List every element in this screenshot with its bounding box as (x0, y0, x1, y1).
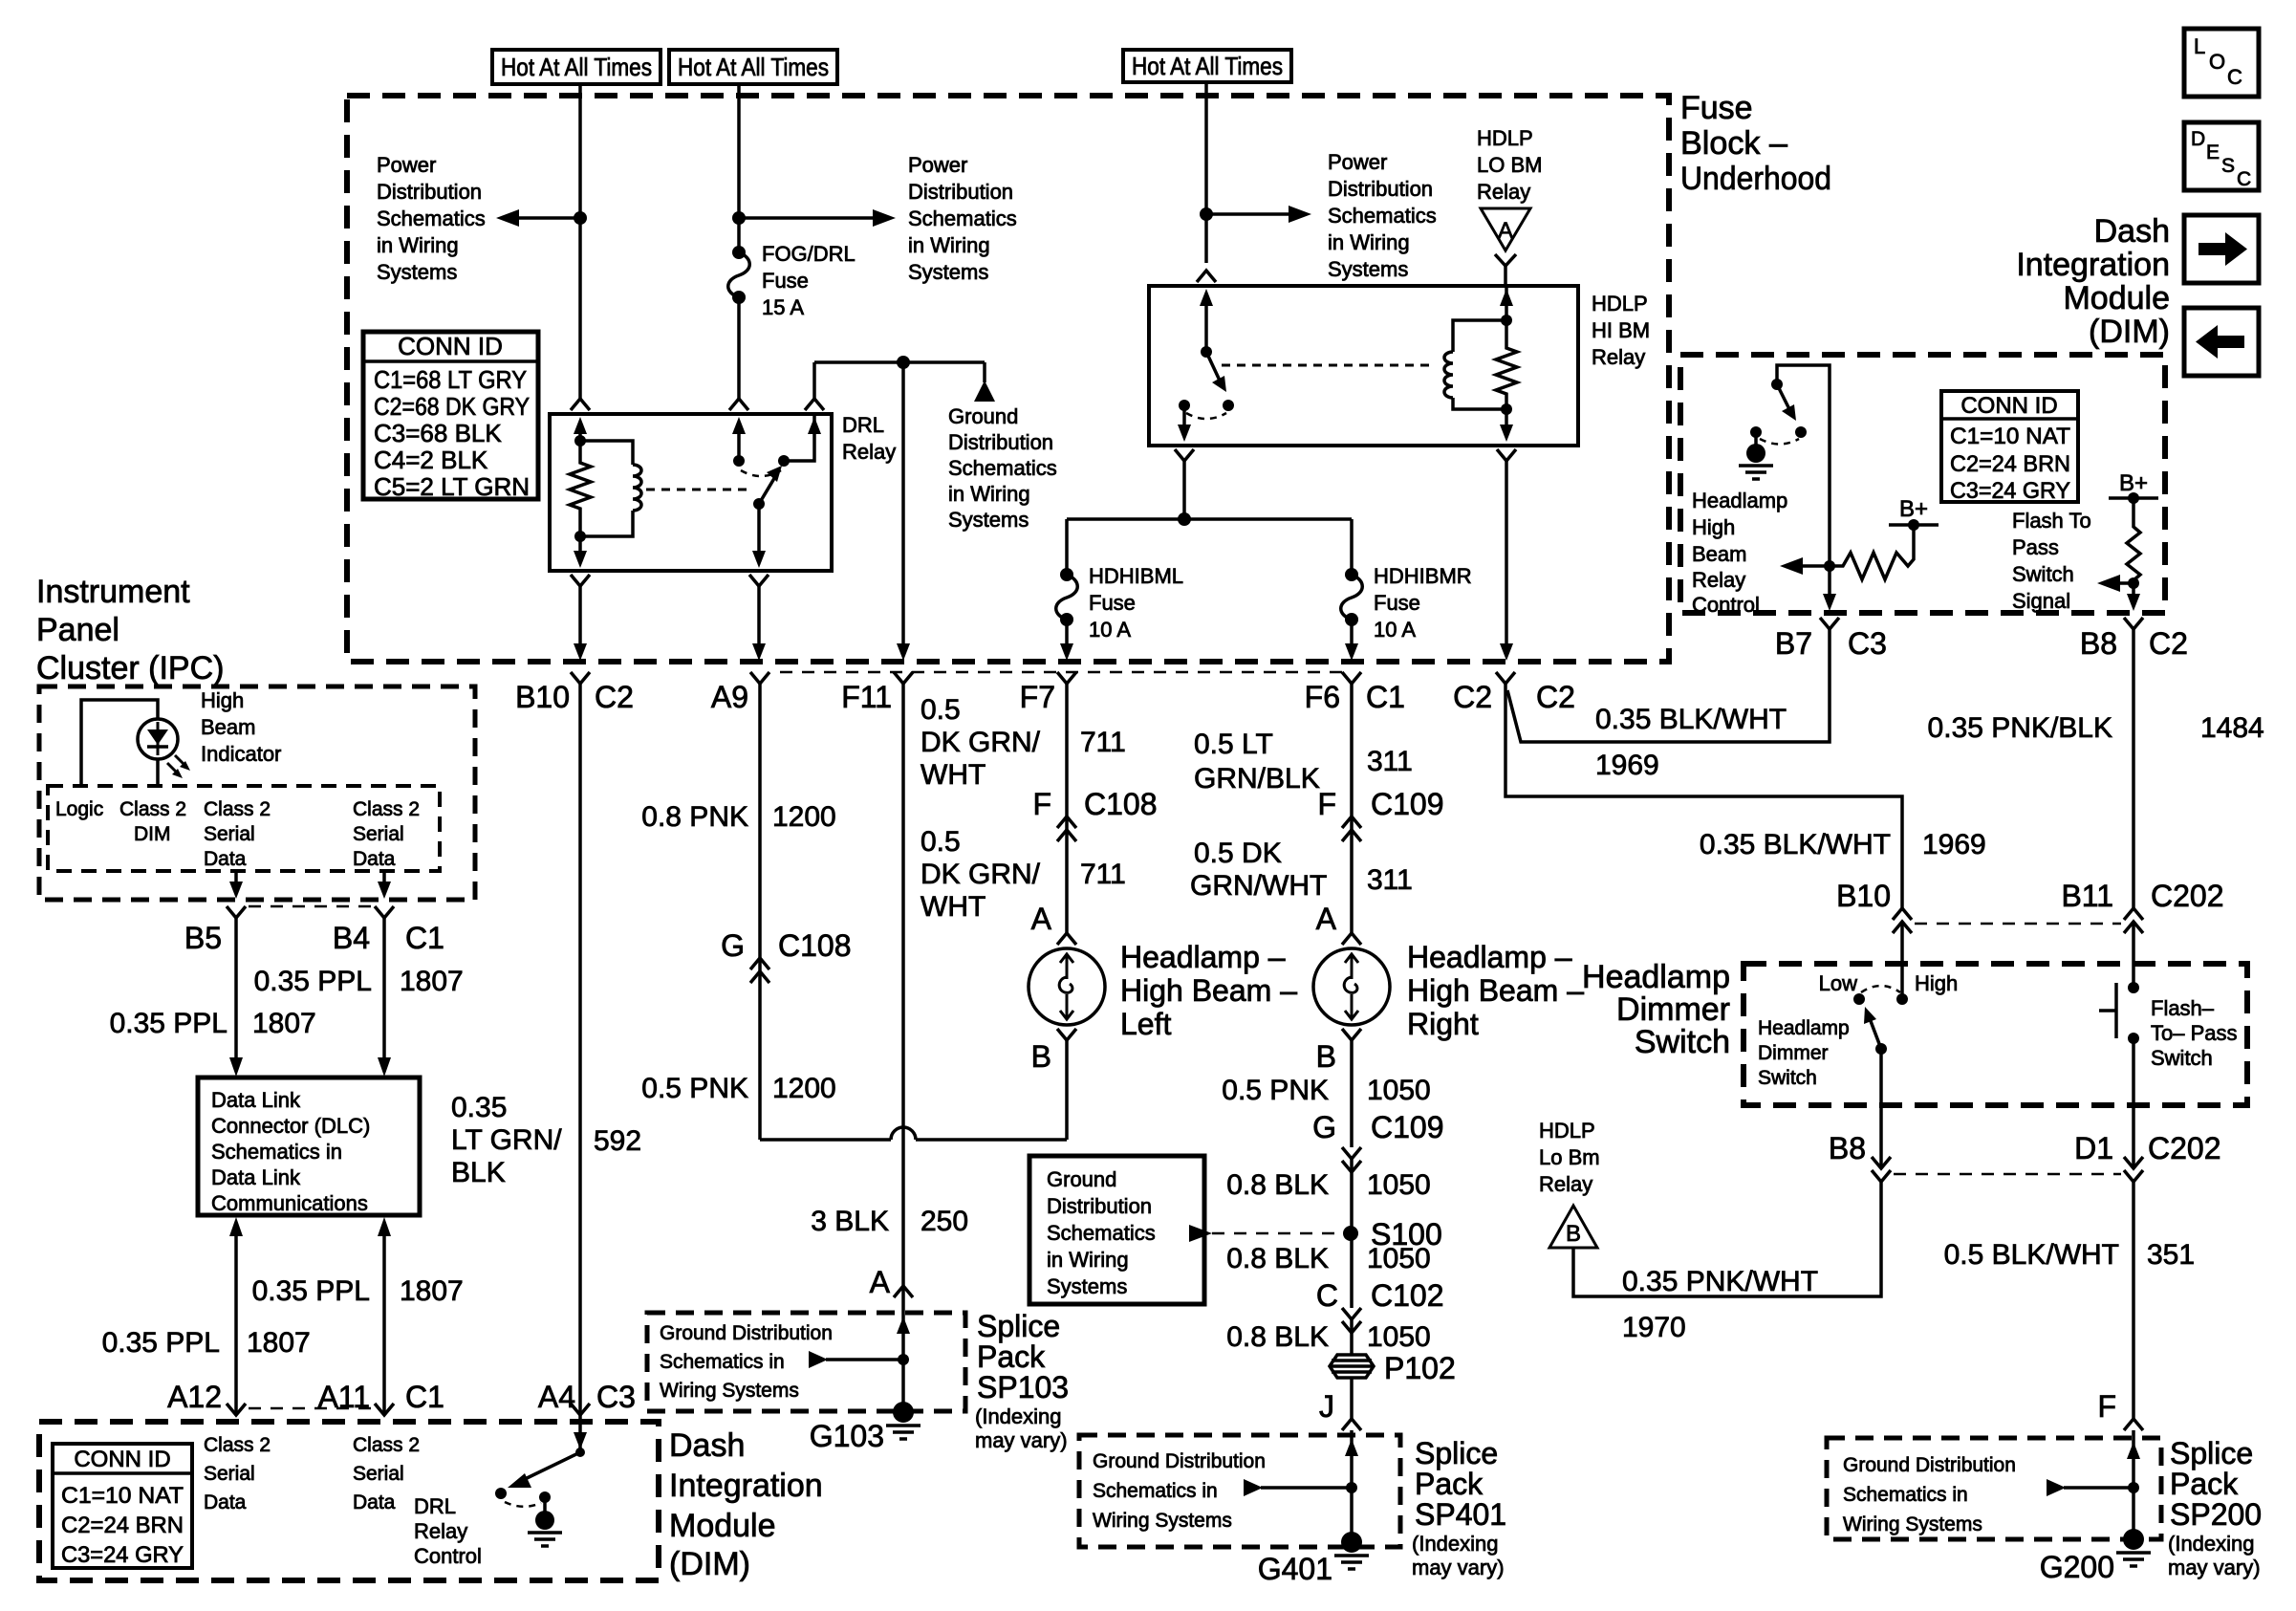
svg-text:C: C (2227, 65, 2242, 89)
svg-text:in Wiring: in Wiring (1047, 1248, 1129, 1272)
pin B chevron left headlamp (1057, 1029, 1076, 1040)
svg-text:C3: C3 (1848, 626, 1887, 661)
svg-text:in Wiring: in Wiring (948, 482, 1030, 506)
label Splice Pack SP200 (2168, 1436, 2262, 1579)
IPC dashed box (39, 686, 475, 900)
svg-text:C4=2 BLK: C4=2 BLK (374, 446, 488, 474)
svg-text:High: High (1692, 515, 1735, 539)
label 0.8 BLK 1050 (below S100) (1226, 1243, 1431, 1274)
exit arrow wire2 bottom of DRL relay (752, 551, 766, 568)
svg-text:D: D (2191, 128, 2205, 150)
connector C108 F-side chevrons (1057, 816, 1076, 841)
svg-text:Ground Distribution: Ground Distribution (1843, 1454, 2016, 1476)
svg-text:Underhood: Underhood (1680, 161, 1831, 197)
label HDHIBML Fuse 10 A (1089, 564, 1183, 642)
right arrow box (2184, 215, 2259, 283)
svg-text:C1: C1 (1366, 680, 1405, 714)
svg-text:311: 311 (1367, 746, 1413, 777)
label Headlamp Dimmer Switch (1582, 959, 1730, 1060)
left arrow box (2184, 308, 2259, 376)
svg-text:0.35 PPL: 0.35 PPL (110, 1008, 227, 1039)
svg-text:3 BLK: 3 BLK (811, 1206, 889, 1237)
Data Link Connector box (198, 1078, 420, 1215)
ground G401 symbol (1334, 1556, 1369, 1569)
label 0.5 DK GRN/WHT (lower F6) (1190, 838, 1327, 902)
label 0.8 PNK 1200 (641, 801, 835, 833)
LOC box (2184, 29, 2259, 97)
svg-text:Class 2: Class 2 (353, 1434, 420, 1456)
svg-text:Signal: Signal (2012, 589, 2070, 613)
SP401 reference arrow (1244, 1479, 1352, 1496)
pin J chevron (1342, 1419, 1361, 1430)
switch output inside HI BM relay (1178, 405, 1191, 442)
svg-text:Relay: Relay (1539, 1172, 1592, 1196)
svg-text:G401: G401 (1258, 1552, 1332, 1586)
svg-text:0.8 PNK: 0.8 PNK (641, 801, 748, 833)
junction node to F11 wire (897, 356, 910, 369)
svg-text:HI BM: HI BM (1592, 318, 1650, 342)
svg-text:G: G (1312, 1110, 1336, 1144)
connector C202 B8 chevrons (1872, 1157, 1891, 1182)
wire2 exit segment inside DRL relay (757, 504, 761, 556)
svg-text:C1: C1 (405, 921, 444, 955)
svg-text:HDLP: HDLP (1592, 292, 1648, 316)
svg-text:Switch: Switch (2012, 562, 2074, 586)
flash-to-pass contact top (2128, 982, 2139, 993)
text Flash To Pass Switch Signal (2012, 509, 2091, 613)
label Fuse Block - Underhood (1680, 90, 1831, 197)
arrow to Power Distribution left (496, 209, 580, 227)
ground G401 ball (1341, 1532, 1362, 1553)
pin chevron wire2 top of DRL relay (729, 399, 748, 410)
HDHIBML fuse (1056, 568, 1078, 661)
switch pivot (HI BM relay) (1201, 346, 1212, 358)
svg-text:Dimmer: Dimmer (1616, 991, 1730, 1028)
DIM bottom dashed box (39, 1422, 659, 1580)
svg-text:0.5 LT: 0.5 LT (1194, 729, 1273, 760)
pin chevron switch feed top of HI BM relay (1197, 271, 1216, 282)
arrow left (relay control) (1780, 557, 1830, 575)
arrow to Power Distribution right (739, 209, 896, 227)
svg-text:Control: Control (1692, 593, 1760, 617)
text Class 2 Serial Data (IPC right) (353, 798, 420, 870)
exit arrow wire1 bottom of DRL relay (574, 551, 587, 568)
svg-text:C1=68 LT GRY: C1=68 LT GRY (374, 365, 527, 394)
entry arrow into SP200 (2127, 1442, 2140, 1459)
svg-text:F: F (2097, 1389, 2116, 1424)
wire B11 into flash-to-pass switch (2132, 922, 2135, 988)
svg-text:S: S (2221, 155, 2235, 177)
switch travel arc (DRL relay) (741, 470, 781, 476)
svg-text:LT GRN/: LT GRN/ (451, 1124, 562, 1156)
label 0.35 PPL 1807 (A11 wire) (252, 1275, 464, 1307)
text Power Distribution right (908, 153, 1017, 284)
svg-text:Low: Low (1819, 971, 1857, 995)
svg-text:0.35 PNK/BLK: 0.35 PNK/BLK (1928, 712, 2112, 744)
ground distribution reference arrow (974, 362, 995, 402)
svg-text:in Wiring: in Wiring (377, 233, 459, 257)
svg-text:B8: B8 (1829, 1131, 1866, 1165)
wire B8/C2 to flash-to-pass switch (2132, 629, 2135, 908)
svg-text:Data: Data (204, 1491, 247, 1513)
svg-text:Serial: Serial (204, 1463, 255, 1485)
junction node B7 wire (1824, 560, 1835, 572)
svg-text:CONN ID: CONN ID (1960, 393, 2057, 419)
pin C2/C2 chevron (1496, 672, 1515, 684)
svg-text:DIM: DIM (134, 823, 171, 845)
svg-text:311: 311 (1367, 864, 1413, 896)
svg-text:Flash To: Flash To (2012, 509, 2091, 533)
text Ground Distribution SP200 (1843, 1454, 2016, 1535)
svg-text:A4: A4 (538, 1380, 575, 1414)
wire1 below DRL relay (571, 575, 590, 661)
svg-text:Systems: Systems (948, 508, 1029, 532)
connector dashed line B8-D1 (1894, 1173, 2121, 1176)
resistor (relay control pull-up) (1830, 553, 1914, 579)
svg-text:Left: Left (1120, 1007, 1171, 1041)
resistor (flash to pass pull-up) (2127, 523, 2140, 583)
entry arrow wire1 into DRL relay (574, 417, 587, 441)
svg-text:1970: 1970 (1622, 1312, 1686, 1343)
svg-text:C3: C3 (596, 1380, 636, 1414)
svg-text:Integration: Integration (669, 1468, 823, 1504)
wire B7 to C2 splice path (1507, 629, 1830, 742)
DRL relay control ground stem (543, 1497, 547, 1513)
SP200 junction node (2128, 1482, 2139, 1493)
svg-text:B5: B5 (184, 921, 222, 955)
pin A4 chevron (571, 1404, 590, 1415)
right headlamp ground wire (1350, 1040, 1354, 1147)
wire 592 full drop (B10/C2 to A4/C3) (578, 684, 582, 1415)
connector C202 B10 chevrons (1893, 908, 1912, 933)
svg-text:G200: G200 (2040, 1550, 2114, 1584)
svg-text:C3=24 GRY: C3=24 GRY (1950, 478, 2070, 504)
pin F11 chevron (894, 672, 913, 684)
svg-text:BLK: BLK (451, 1157, 506, 1188)
relay coil node bottom (574, 531, 586, 542)
svg-text:O: O (2209, 50, 2225, 74)
entry arrow coil feed into HI BM relay (1500, 286, 1513, 320)
text HDLP LO BM Relay (1477, 126, 1542, 204)
text Class 2 Serial Data (DIM left) (204, 1434, 271, 1513)
svg-text:Distribution: Distribution (948, 430, 1053, 454)
wire B4 to DLC (378, 918, 391, 1077)
svg-text:1484: 1484 (2200, 712, 2264, 744)
svg-text:C1=10 NAT: C1=10 NAT (1950, 424, 2070, 449)
svg-text:Distribution: Distribution (1047, 1194, 1152, 1218)
svg-text:Relay: Relay (1477, 180, 1530, 204)
switch arm (HI BM relay) (1206, 352, 1226, 392)
svg-text:Lo Bm: Lo Bm (1539, 1145, 1600, 1169)
connector dashed line under fuse block (780, 671, 1343, 674)
svg-text:C2=24 BRN: C2=24 BRN (61, 1513, 184, 1538)
label Instrument Panel Cluster (IPC) (36, 574, 224, 686)
svg-text:Splice: Splice (1415, 1436, 1498, 1470)
relay control travel arc (1760, 439, 1799, 445)
dimmer contact low (1853, 993, 1865, 1005)
svg-text:High Beam –: High Beam – (1407, 973, 1584, 1008)
svg-text:0.8 BLK: 0.8 BLK (1226, 1243, 1329, 1274)
relay control contact right (1795, 426, 1807, 438)
relay control contact left (1750, 426, 1762, 438)
svg-text:Schematics in: Schematics in (1093, 1480, 1218, 1502)
label FOG/DRL Fuse 15 A (762, 242, 856, 319)
svg-text:High: High (201, 688, 244, 712)
svg-text:1807: 1807 (400, 966, 464, 997)
svg-text:C102: C102 (1371, 1278, 1444, 1313)
dashed actuation link (HI BM relay) (1222, 364, 1436, 367)
svg-text:C2: C2 (1453, 680, 1492, 714)
svg-text:C2: C2 (1536, 680, 1575, 714)
CONN ID table (DIM) (53, 1444, 192, 1568)
svg-text:F: F (1032, 787, 1051, 821)
svg-text:Relay: Relay (842, 440, 896, 464)
svg-text:WHT: WHT (921, 891, 986, 923)
label 0.5 DK GRN/ WHT (lower F7) (921, 826, 1041, 923)
Splice Pack SP200 dashed box (1827, 1438, 2161, 1539)
svg-text:A12: A12 (167, 1380, 222, 1414)
svg-text:Distribution: Distribution (1328, 177, 1433, 201)
svg-text:Headlamp –: Headlamp – (1407, 940, 1572, 974)
dashed actuation link (DRL relay) (646, 489, 751, 491)
DRL relay control ground ball (535, 1511, 554, 1530)
svg-text:Flash–: Flash– (2151, 996, 2215, 1020)
text Ground Distribution (top) (948, 404, 1057, 532)
svg-text:Serial: Serial (353, 823, 404, 845)
svg-text:Systems: Systems (377, 260, 457, 284)
connector C108 G-side chevrons (750, 958, 769, 983)
svg-text:in Wiring: in Wiring (908, 233, 990, 257)
svg-text:C108: C108 (778, 928, 852, 963)
svg-text:in Wiring: in Wiring (1328, 230, 1410, 254)
Hot At All Times box 2 (669, 50, 837, 84)
svg-text:250: 250 (921, 1206, 968, 1237)
svg-text:(Indexing: (Indexing (975, 1404, 1062, 1428)
svg-text:0.8 BLK: 0.8 BLK (1226, 1321, 1329, 1353)
DRL relay control travel arc (505, 1502, 541, 1507)
label 0.5 PNK 1050 (1222, 1075, 1430, 1106)
exit arrow B8 wire in DIM (2127, 583, 2140, 611)
connector C109 F-side chevrons (1342, 816, 1361, 841)
relay control ground stem (1754, 432, 1758, 446)
SP200 reference arrow (2047, 1479, 2134, 1496)
svg-text:(Indexing: (Indexing (2168, 1532, 2255, 1556)
svg-text:0.5: 0.5 (921, 694, 961, 726)
dimmer switch pivot (1875, 1043, 1887, 1055)
svg-text:may vary): may vary) (1412, 1556, 1505, 1579)
label 0.35 PPL 1807 (B5 wire) (110, 1008, 316, 1039)
svg-text:L: L (2194, 34, 2205, 58)
junction node fuse feed (1178, 512, 1191, 526)
Ground Distribution solid box (middle) (1029, 1156, 1204, 1304)
switch fixed contact right (HI BM relay) (1223, 400, 1234, 411)
wire from Hot box 2 (FOG/DRL feed) (737, 84, 741, 252)
coil stubs (580, 441, 633, 465)
svg-text:Power: Power (377, 153, 436, 177)
svg-text:0.35: 0.35 (451, 1092, 507, 1123)
LED light emission arrows (167, 755, 190, 778)
exit arrow B7 wire in DIM (1823, 594, 1836, 611)
entry arrow wire2 into DRL relay (732, 417, 746, 461)
entry arrow switch feed into HI BM relay (1200, 289, 1213, 352)
high beam indicator LED circle (138, 719, 178, 759)
svg-text:WHT: WHT (921, 759, 986, 791)
svg-text:1200: 1200 (772, 1073, 836, 1104)
svg-text:Splice: Splice (977, 1309, 1060, 1343)
coil (HI BM relay) (1444, 352, 1453, 398)
svg-text:592: 592 (594, 1125, 641, 1157)
svg-text:B: B (1316, 1039, 1336, 1074)
svg-text:FOG/DRL: FOG/DRL (762, 242, 856, 266)
svg-text:Data: Data (353, 848, 396, 870)
svg-text:C202: C202 (2148, 1131, 2221, 1165)
wire2 below DRL relay (749, 575, 769, 661)
triangle connector A (HDLP LO BM relay) (1481, 208, 1530, 286)
svg-text:B+: B+ (1899, 496, 1928, 522)
svg-text:Logic: Logic (55, 798, 103, 820)
switch travel arc (HI BM relay) (1186, 413, 1226, 419)
CONN ID table (fuse block) (363, 332, 538, 501)
svg-text:A11: A11 (317, 1380, 370, 1414)
svg-text:F7: F7 (1020, 680, 1055, 714)
junction node on wire 2 (732, 211, 746, 225)
svg-text:10 A: 10 A (1374, 618, 1416, 642)
svg-text:Switch: Switch (1758, 1067, 1817, 1089)
svg-text:Dash: Dash (669, 1427, 745, 1464)
svg-text:1807: 1807 (252, 1008, 316, 1039)
wire jog to left headlamp with hop over F11 wire (760, 1040, 1067, 1140)
svg-text:Block –: Block – (1680, 125, 1787, 162)
svg-text:Schematics: Schematics (1328, 204, 1437, 228)
DRL relay control contact left (495, 1488, 507, 1499)
svg-text:B7: B7 (1775, 626, 1812, 661)
svg-text:Schematics in: Schematics in (1843, 1484, 1968, 1506)
text Power Distribution left (377, 153, 486, 284)
svg-text:Pack: Pack (1415, 1467, 1484, 1501)
svg-text:C202: C202 (2151, 879, 2224, 913)
svg-text:Ground Distribution: Ground Distribution (660, 1322, 833, 1344)
svg-text:A: A (1316, 902, 1337, 936)
ground G103 ball (893, 1402, 914, 1423)
CONN ID table (DIM right) (1941, 391, 2078, 504)
B+ feed symbol (relay control) (1889, 496, 1939, 555)
svg-text:Splice: Splice (2170, 1436, 2253, 1470)
svg-text:711: 711 (1080, 727, 1126, 758)
svg-text:Hot At All Times: Hot At All Times (1132, 52, 1283, 80)
label HDHIBMR Fuse 10 A (1374, 564, 1472, 642)
label 0.35 LT GRN/ BLK (451, 1092, 562, 1188)
svg-text:Relay: Relay (1692, 568, 1745, 592)
svg-text:0.35 PPL: 0.35 PPL (102, 1327, 220, 1359)
svg-text:0.5: 0.5 (921, 826, 961, 858)
fuse feed horizontal wire (1067, 517, 1352, 521)
switch fixed contact left (HI BM relay) (1179, 400, 1190, 411)
svg-text:1200: 1200 (772, 801, 836, 833)
svg-text:Schematics in: Schematics in (660, 1351, 785, 1373)
coil stubs (HI BM relay) (1453, 320, 1506, 352)
svg-text:DK GRN/: DK GRN/ (921, 859, 1041, 890)
pin B10/C2 chevron (571, 672, 590, 684)
headlamp high beam left bulb (1029, 948, 1105, 1025)
label Headlamp High Beam Right (1407, 940, 1584, 1041)
connector dashed line B10-B11 (1915, 923, 2121, 925)
svg-text:Systems: Systems (908, 260, 988, 284)
Hot At All Times box 3 (1123, 50, 1291, 82)
DRL relay control switch arm (508, 1452, 580, 1488)
DRL relay control switch pivot (575, 1448, 585, 1457)
svg-text:C1=10 NAT: C1=10 NAT (61, 1483, 184, 1509)
svg-text:Fuse: Fuse (1374, 591, 1420, 615)
svg-text:F11: F11 (841, 680, 892, 714)
wire dimmer common out (1879, 1049, 1883, 1168)
svg-text:C2=24 BRN: C2=24 BRN (1950, 451, 2070, 477)
pin A9 chevron (750, 672, 769, 684)
IPC logic inner dashed box (48, 786, 440, 871)
svg-text:Connector (DLC): Connector (DLC) (211, 1114, 370, 1138)
svg-text:Headlamp: Headlamp (1692, 489, 1787, 512)
svg-text:Schematics: Schematics (948, 456, 1057, 480)
svg-text:Instrument: Instrument (36, 574, 190, 610)
switch pivot (DRL relay) (753, 498, 765, 510)
high beam indicator lamp wire (81, 700, 158, 786)
pin F chevron (2124, 1419, 2143, 1430)
svg-text:B: B (1566, 1221, 1581, 1247)
text Headlamp Dimmer Switch (inner) (1758, 1017, 1850, 1089)
svg-text:Relay: Relay (414, 1519, 467, 1543)
svg-text:Module: Module (2063, 280, 2170, 316)
wire1 exit segment inside DRL relay (578, 536, 582, 556)
svg-text:0.35 PPL: 0.35 PPL (252, 1275, 370, 1307)
headlamp dimmer switch dashed box (1744, 964, 2247, 1105)
svg-text:Ground Distribution: Ground Distribution (1093, 1450, 1266, 1472)
entry arrow into SP103 (897, 1317, 910, 1334)
svg-text:Systems: Systems (1328, 257, 1408, 281)
B+ feed symbol (flash to pass) (2109, 470, 2158, 523)
wire F11 (3 BLK) drop (901, 684, 905, 1405)
svg-text:Panel: Panel (36, 612, 119, 648)
connector C102 chevrons (1342, 1308, 1361, 1333)
DESC box (2184, 122, 2259, 190)
svg-text:P102: P102 (1384, 1351, 1456, 1385)
label 3 BLK 250 (811, 1206, 968, 1237)
dashed reference line to S100 (1189, 1225, 1340, 1242)
pin chevron wire1 top of DRL relay (571, 399, 590, 410)
connector C109 G-side chevrons (1342, 1147, 1361, 1172)
svg-text:Data Link: Data Link (211, 1165, 301, 1189)
svg-text:Indicator: Indicator (201, 742, 281, 766)
svg-text:B10: B10 (1836, 879, 1891, 913)
svg-text:Serial: Serial (204, 823, 255, 845)
svg-text:Hot At All Times: Hot At All Times (501, 53, 652, 81)
svg-text:Wiring Systems: Wiring Systems (1843, 1513, 1982, 1535)
svg-text:G: G (721, 928, 745, 963)
ground G200 symbol (2116, 1553, 2151, 1566)
svg-text:Beam: Beam (201, 715, 255, 739)
svg-text:Pack: Pack (2170, 1467, 2239, 1501)
ground G200 ball (2123, 1529, 2144, 1550)
relay control switch pivot (1771, 379, 1783, 390)
svg-text:1050: 1050 (1367, 1075, 1431, 1106)
svg-text:0.35 BLK/WHT: 0.35 BLK/WHT (1700, 829, 1891, 860)
svg-text:Wiring Systems: Wiring Systems (660, 1380, 799, 1402)
svg-text:Power: Power (1328, 150, 1387, 174)
wire C2 to dimmer high path (1505, 684, 1902, 908)
pin A chevron (SP103) (894, 1286, 913, 1297)
pin B8 chevron (DIM) (2124, 618, 2143, 629)
svg-text:LO BM: LO BM (1477, 153, 1542, 177)
svg-text:Data: Data (353, 1491, 396, 1513)
wire B8 to triangle B path (1573, 1182, 1881, 1296)
